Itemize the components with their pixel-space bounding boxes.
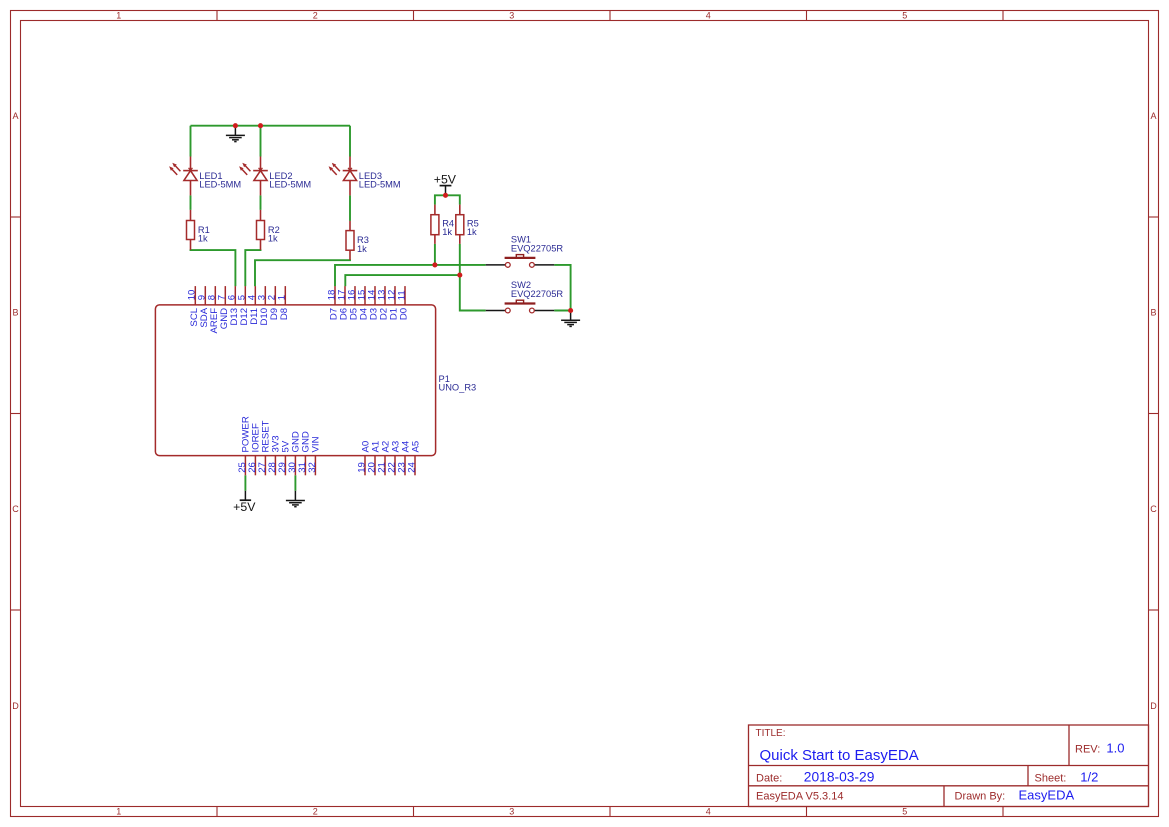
svg-text:Sheet:: Sheet:	[1035, 773, 1067, 785]
svg-text:EasyEDA: EasyEDA	[1019, 787, 1075, 802]
svg-text:2018-03-29: 2018-03-29	[804, 770, 875, 785]
svg-text:EasyEDA V5.3.14: EasyEDA V5.3.14	[756, 790, 843, 802]
svg-text:1k: 1k	[357, 244, 367, 254]
svg-text:D0: D0	[399, 308, 410, 320]
svg-text:A: A	[12, 111, 18, 121]
svg-text:LED-5MM: LED-5MM	[269, 180, 311, 190]
svg-text:5: 5	[902, 807, 907, 817]
svg-text:C: C	[1150, 504, 1157, 514]
svg-text:4: 4	[706, 10, 711, 20]
svg-text:1k: 1k	[268, 234, 278, 244]
svg-text:B: B	[1150, 307, 1156, 317]
svg-text:+5V: +5V	[434, 173, 457, 187]
svg-text:3: 3	[509, 10, 514, 20]
svg-text:1: 1	[116, 10, 121, 20]
svg-text:32: 32	[307, 462, 318, 473]
svg-text:TITLE:: TITLE:	[756, 728, 786, 739]
svg-text:1.0: 1.0	[1106, 740, 1124, 755]
svg-text:3: 3	[509, 807, 514, 817]
svg-text:1/2: 1/2	[1080, 770, 1098, 785]
svg-text:1: 1	[116, 807, 121, 817]
svg-text:VIN: VIN	[311, 436, 322, 452]
svg-text:Date:: Date:	[756, 773, 782, 785]
svg-text:1k: 1k	[198, 234, 208, 244]
svg-text:D: D	[1150, 701, 1157, 711]
svg-text:Quick Start to EasyEDA: Quick Start to EasyEDA	[760, 747, 919, 764]
svg-text:24: 24	[406, 461, 417, 472]
svg-text:+5V: +5V	[233, 500, 256, 514]
svg-text:1: 1	[277, 295, 288, 300]
svg-text:D: D	[12, 701, 19, 711]
svg-text:REV:: REV:	[1075, 743, 1100, 755]
svg-text:EVQ22705R: EVQ22705R	[511, 244, 563, 254]
svg-text:5: 5	[902, 10, 907, 20]
svg-text:1k: 1k	[442, 227, 452, 237]
svg-text:11: 11	[396, 290, 407, 300]
svg-text:UNO_R3: UNO_R3	[439, 383, 477, 393]
svg-text:Drawn By:: Drawn By:	[955, 790, 1006, 802]
svg-text:A5: A5	[410, 441, 421, 453]
svg-text:LED-5MM: LED-5MM	[199, 180, 241, 190]
svg-text:B: B	[12, 307, 18, 317]
svg-text:2: 2	[313, 807, 318, 817]
svg-text:2: 2	[313, 10, 318, 20]
svg-text:1k: 1k	[467, 227, 477, 237]
svg-text:A: A	[1150, 111, 1156, 121]
svg-text:D8: D8	[279, 308, 290, 320]
svg-text:4: 4	[706, 807, 711, 817]
svg-text:LED-5MM: LED-5MM	[359, 180, 401, 190]
svg-text:EVQ22705R: EVQ22705R	[511, 289, 563, 299]
svg-text:C: C	[12, 504, 19, 514]
